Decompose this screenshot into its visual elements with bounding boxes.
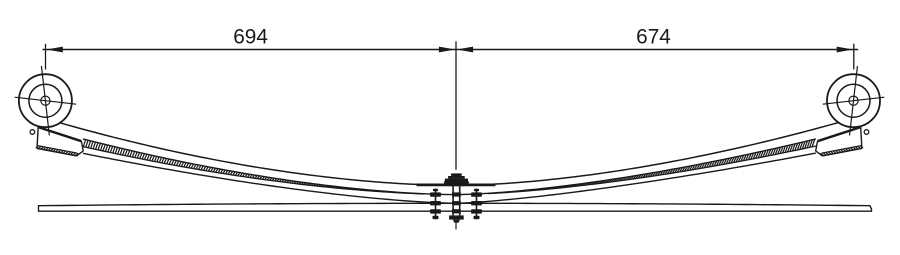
right rolled-end hook (864, 130, 869, 135)
right eye (spring eye, outer/inner circle + center mark) (827, 74, 880, 127)
right clamp (leaf2 end block) (818, 127, 861, 141)
hatched face between leaf1 and leaf2 (left) (83, 139, 86, 147)
center line (455, 41, 457, 170)
center bolt nut (449, 215, 464, 219)
leaf2 top edge left (83, 147, 424, 194)
leaf1 bottom edge / leaf2 top interface (83, 139, 816, 195)
left eye (spring eye, outer/inner circle + center mark) (19, 74, 72, 127)
arrow left dim start (46, 47, 63, 53)
arrow right dim end (837, 47, 854, 53)
left clamp bolt (435, 189, 437, 220)
left rolled-end hook (30, 130, 35, 135)
hatched face between leaf1 and leaf2 (right) (523, 189, 526, 192)
dimension line (43, 49, 859, 51)
svg-text:694: 694 (233, 26, 268, 49)
center line stub below bolt (455, 223, 457, 230)
arrow left dim end (439, 47, 456, 53)
leaf3 flat bottom leaf (39, 203, 872, 211)
svg-text:674: 674 (636, 26, 671, 49)
leaf1 top edge (60, 122, 839, 185)
arrow right dim start (457, 47, 474, 53)
right extension line (853, 44, 855, 70)
right clamp bolt (476, 189, 478, 220)
left extension line (45, 44, 47, 70)
left clamp (leaf2 end block) (38, 127, 81, 141)
thick clamped segment on leaf1 top (417, 184, 496, 187)
leaf2 bottom edge (83, 153, 816, 203)
center bolt head (451, 173, 462, 176)
center bolt shaft (452, 186, 454, 215)
leaf2 top edge right (488, 146, 816, 194)
